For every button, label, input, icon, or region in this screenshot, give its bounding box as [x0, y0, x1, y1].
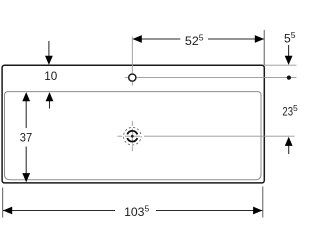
drain center dot — [131, 135, 134, 138]
label 5.5 — [284, 30, 296, 46]
dimension 23.5 up arrow to drain centerline — [285, 137, 293, 154]
dimension 5.5 dot marker on tap centerline — [287, 76, 291, 80]
bottom extension line right — [262, 187, 264, 218]
drain dashed circle — [124, 127, 142, 145]
tap hole circle — [129, 74, 136, 81]
label 52.5 — [185, 32, 204, 48]
right edge extension line up — [263, 30, 265, 65]
svg-text:1035: 1035 — [124, 204, 149, 220]
label 37 — [20, 131, 33, 145]
svg-text:55: 55 — [284, 30, 296, 46]
dimension 5.5 down arrow — [285, 45, 293, 65]
dimension 37 line with up and down arrows — [22, 92, 30, 182]
drain centerline vertical — [131, 121, 133, 151]
svg-text:525: 525 — [185, 32, 204, 48]
svg-text:10: 10 — [44, 69, 57, 83]
dimension 103.5 line — [3, 207, 262, 215]
top edge extension line to right — [265, 64, 297, 66]
tap hole centerline vertical — [131, 37, 133, 86]
label 23.5 — [282, 103, 298, 119]
drain centerline horizontal extending right — [118, 135, 295, 137]
dimension 10 up arrow to inner rim — [46, 92, 54, 108]
label 103.5 — [124, 204, 149, 220]
washbasin outer outline — [2, 65, 264, 183]
label 10 — [44, 69, 57, 83]
tap hole centerline horizontal extending right to 5.5 marker — [125, 77, 297, 79]
dimension 52.5 line — [133, 35, 265, 43]
dimension 10 down arrow to top edge — [45, 41, 53, 65]
washbasin inner rim — [5, 92, 262, 180]
drain hole bold ring with side gaps — [127, 131, 137, 142]
svg-text:235: 235 — [282, 103, 298, 119]
bottom extension line left — [2, 188, 4, 218]
svg-text:37: 37 — [20, 131, 33, 145]
